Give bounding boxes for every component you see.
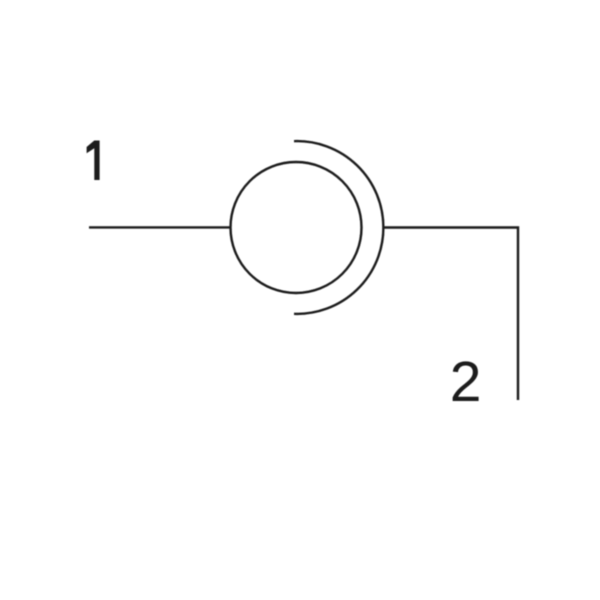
wire right segment with corner down bbox=[383, 228, 518, 401]
pin label 1 bbox=[87, 141, 100, 181]
connector J1 plug circle bbox=[231, 162, 362, 293]
connector J1 socket arc bbox=[294, 141, 383, 314]
svg-text:2: 2 bbox=[450, 350, 482, 414]
wire left segment to connector bbox=[89, 226, 231, 228]
